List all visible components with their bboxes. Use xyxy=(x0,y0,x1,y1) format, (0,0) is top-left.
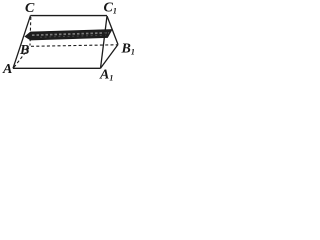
shaded section mid speckle xyxy=(32,33,109,35)
edge A-C xyxy=(13,16,31,69)
svg-text:A: A xyxy=(2,62,12,77)
edge A-A1 (bottom) xyxy=(13,67,101,69)
edge C-C1 (top) xyxy=(31,15,108,17)
edge B1-A1 xyxy=(101,45,119,69)
hidden edge B-B1 (dashed) xyxy=(31,45,117,47)
edge C1-B1 xyxy=(107,16,118,45)
hidden edge A-B (dashed) xyxy=(14,47,30,68)
shaded section plane xyxy=(25,30,112,41)
svg-text:B: B xyxy=(19,43,29,58)
edge C1-A1 xyxy=(101,16,108,68)
svg-text:C: C xyxy=(25,1,35,16)
svg-text:B1: B1 xyxy=(121,42,135,57)
svg-text:C1: C1 xyxy=(104,1,117,16)
hidden edge C-B (dashed) xyxy=(29,17,32,46)
svg-text:A1: A1 xyxy=(99,68,113,82)
